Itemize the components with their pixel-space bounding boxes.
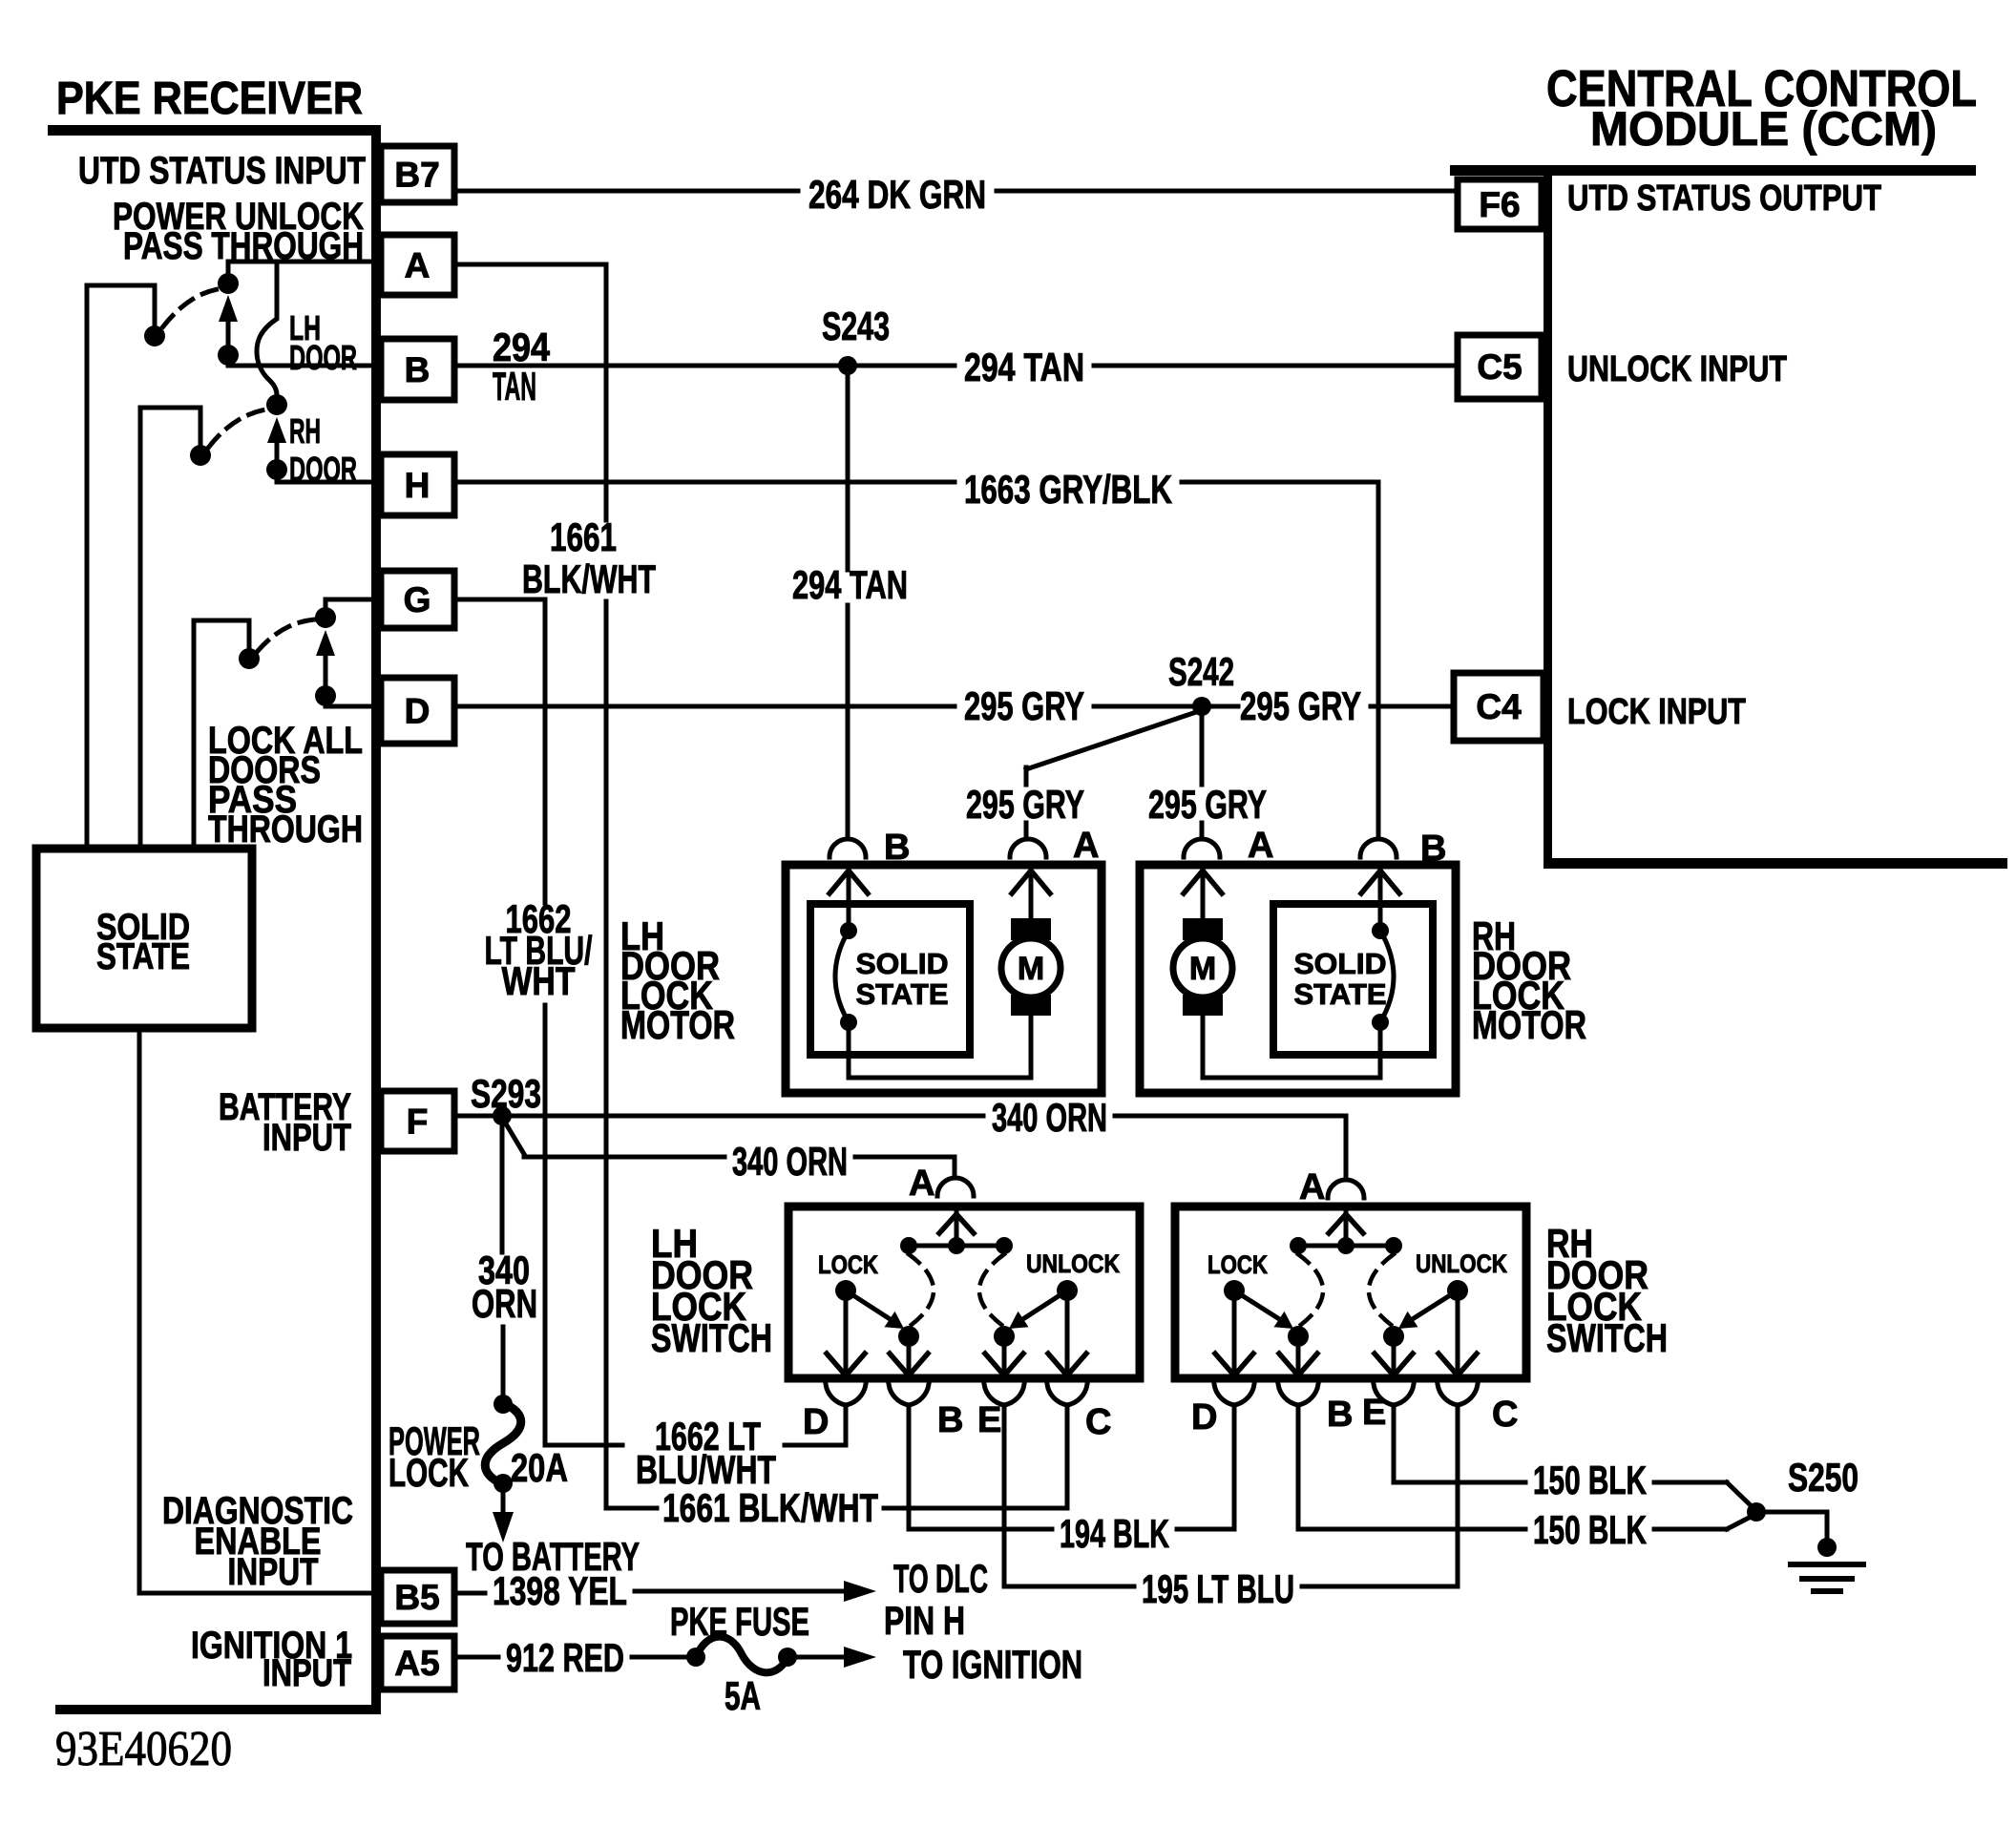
svg-text:295 GRY: 295 GRY [964,683,1084,728]
svg-text:S293: S293 [471,1071,541,1116]
svg-text:150 BLK: 150 BLK [1533,1458,1647,1502]
svg-text:S243: S243 [822,304,890,348]
svg-text:THROUGH: THROUGH [208,808,363,850]
svg-text:RH: RH [289,411,321,451]
svg-text:B: B [1420,829,1446,869]
svg-text:SWITCH: SWITCH [1546,1315,1668,1360]
svg-text:194 BLK: 194 BLK [1060,1511,1169,1556]
svg-text:912 RED: 912 RED [506,1635,624,1680]
svg-text:C: C [1492,1395,1518,1435]
svg-text:WHT: WHT [502,958,576,1003]
svg-text:1661 BLK/WHT: 1661 BLK/WHT [662,1485,878,1530]
svg-text:UNLOCK: UNLOCK [1416,1249,1507,1278]
svg-text:C4: C4 [1476,687,1522,726]
svg-text:294 TAN: 294 TAN [964,345,1084,389]
svg-text:UTD STATUS OUTPUT: UTD STATUS OUTPUT [1567,178,1881,219]
svg-text:PKE RECEIVER: PKE RECEIVER [56,73,363,124]
svg-text:A: A [1299,1167,1325,1207]
svg-text:C: C [1085,1402,1111,1442]
svg-text:UNLOCK INPUT: UNLOCK INPUT [1567,349,1787,389]
svg-text:INPUT: INPUT [262,1652,351,1694]
svg-text:F: F [407,1102,429,1142]
svg-text:295 GRY: 295 GRY [1148,782,1267,827]
svg-text:E: E [1362,1393,1386,1433]
svg-text:E: E [977,1400,1001,1440]
svg-text:STATE: STATE [856,977,949,1011]
svg-text:295 GRY: 295 GRY [966,782,1084,827]
svg-text:295 GRY: 295 GRY [1240,683,1361,728]
svg-text:D: D [405,692,430,731]
svg-text:PIN H: PIN H [884,1598,965,1643]
svg-text:340 ORN: 340 ORN [992,1095,1107,1140]
svg-text:MOTOR: MOTOR [620,1002,735,1047]
svg-text:A: A [1073,826,1099,866]
svg-text:1663 GRY/BLK: 1663 GRY/BLK [964,467,1172,512]
svg-text:LOCK INPUT: LOCK INPUT [1567,692,1746,732]
svg-text:195 LT BLU: 195 LT BLU [1142,1566,1294,1611]
svg-text:D: D [1191,1397,1217,1438]
svg-text:TO DLC: TO DLC [893,1556,988,1601]
svg-text:A5: A5 [394,1644,439,1683]
svg-text:MOTOR: MOTOR [1472,1002,1586,1047]
svg-text:TO IGNITION: TO IGNITION [903,1642,1082,1687]
svg-text:TAN: TAN [493,364,536,409]
svg-text:B: B [405,350,430,389]
svg-text:93E40620: 93E40620 [55,1722,232,1776]
svg-text:SWITCH: SWITCH [651,1315,772,1360]
svg-text:UTD STATUS INPUT: UTD STATUS INPUT [78,150,366,192]
svg-text:5A: 5A [724,1673,761,1718]
svg-text:B: B [1327,1395,1353,1435]
svg-text:C5: C5 [1477,347,1522,387]
svg-text:B: B [937,1400,963,1440]
svg-text:B5: B5 [394,1578,439,1617]
svg-text:M: M [1018,951,1044,987]
svg-text:A: A [1248,826,1273,866]
svg-text:H: H [405,466,430,505]
svg-text:1661: 1661 [550,514,617,559]
svg-text:PKE FUSE: PKE FUSE [670,1599,809,1644]
svg-text:G: G [404,580,431,619]
svg-text:1398 YEL: 1398 YEL [493,1568,627,1613]
svg-text:A: A [909,1164,934,1204]
svg-text:ORN: ORN [472,1281,537,1326]
svg-text:INPUT: INPUT [228,1551,319,1593]
svg-text:SOLID: SOLID [856,947,949,980]
svg-text:MODULE (CCM): MODULE (CCM) [1590,102,1937,156]
svg-text:M: M [1189,951,1216,987]
svg-text:INPUT: INPUT [262,1117,351,1159]
svg-text:D: D [803,1402,829,1442]
svg-text:150 BLK: 150 BLK [1533,1507,1647,1552]
svg-text:UNLOCK: UNLOCK [1026,1249,1120,1278]
svg-text:20A: 20A [511,1445,568,1490]
svg-text:SOLID: SOLID [1294,947,1387,980]
svg-text:LOCK: LOCK [818,1250,878,1279]
svg-text:S242: S242 [1168,649,1234,694]
svg-text:264 DK GRN: 264 DK GRN [808,172,986,217]
svg-text:DOOR: DOOR [289,338,357,377]
svg-text:BLK/WHT: BLK/WHT [522,556,656,601]
svg-text:294 TAN: 294 TAN [792,562,908,607]
svg-text:B7: B7 [394,156,439,195]
svg-text:LOCK: LOCK [1207,1250,1268,1279]
svg-text:294: 294 [493,325,551,369]
svg-text:S250: S250 [1788,1455,1858,1500]
svg-text:F6: F6 [1479,185,1520,224]
svg-text:B: B [884,828,910,868]
svg-text:STATE: STATE [1294,977,1387,1011]
svg-text:STATE: STATE [96,936,190,977]
svg-text:340 ORN: 340 ORN [732,1139,848,1184]
svg-text:LOCK: LOCK [388,1450,469,1495]
svg-text:A: A [405,246,430,285]
